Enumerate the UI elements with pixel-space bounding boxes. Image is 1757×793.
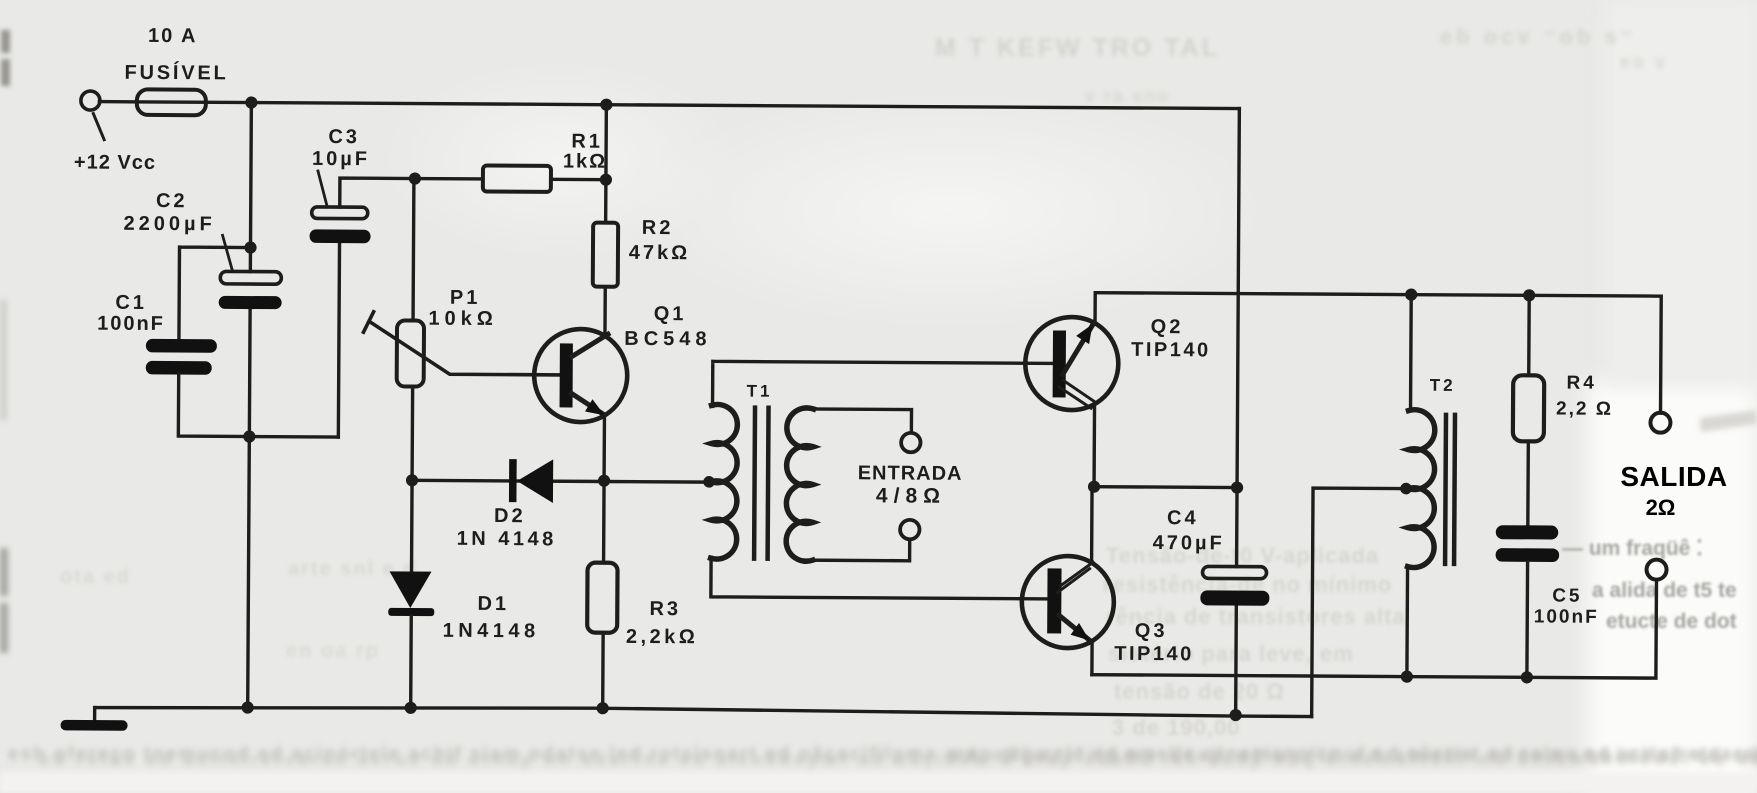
svg-text:C1: C1 [115,292,147,314]
transformer T2 bottom lead [1405,567,1409,677]
transistor Q2 circle [1025,317,1119,411]
wire: Q3 collector lead up [1090,487,1094,564]
fuse F1 body [137,89,206,115]
label SALIDA [1619,461,1729,493]
node: junction C4 line [1231,481,1243,493]
transistor Q3 circle [1022,556,1115,649]
resistor R2 (47k) body [593,223,618,287]
capacitor C2 (2200uF) top plate [220,271,281,284]
transistor Q1 emitter stroke with arrow [571,393,602,413]
wire: R3 bottom lead [601,633,605,709]
svg-text:T2: T2 [1430,376,1456,395]
wire: Q1 emitter lead down [602,416,606,481]
transistor Q1 base bar [560,343,573,407]
transformer T1 secondary winding [786,408,813,562]
leader line C2 label [222,235,232,270]
svg-text:10 A: 10 A [148,25,198,47]
svg-text:P1: P1 [450,287,481,309]
node: junction Q2/Q3 [1088,481,1100,493]
wire: vertical R2 branch from rail [604,105,608,223]
capacitor C1 bottom plate [146,361,212,375]
svg-text:R2: R2 [642,217,674,239]
svg-text:BC548: BC548 [624,328,711,351]
leader line C3 label [318,171,327,205]
capacitor C5 (100nF) top plate [1496,525,1559,539]
svg-text:C3: C3 [328,126,360,148]
svg-text:100nF: 100nF [97,313,165,335]
terminal: SALIDA upper [1650,413,1670,433]
svg-text:R1: R1 [571,130,603,152]
svg-text:FUSÍVEL: FUSÍVEL [124,61,228,85]
wire: R2 bottom to Q1 collector [603,287,607,337]
node: junction Q1 emitter / D2 [598,475,610,487]
node: junction C2 line bottom [243,430,255,442]
wire: Q2 collector lead down [1092,405,1096,487]
label 2 ohm (SALIDA) [1619,495,1702,521]
wire: R3 top lead [602,481,606,563]
wire: C1 bottom to bottom node line [178,374,338,437]
transistor Q3 emitter stroke with arrow (down) [1059,615,1090,640]
wire: lower output rail [1092,577,1657,678]
wire: C1 top connection [179,247,251,339]
svg-text:Q2: Q2 [1151,316,1184,338]
svg-text:2200µF: 2200µF [123,213,215,236]
terminal: ENTRADA lower [900,520,920,540]
svg-text:C5: C5 [1552,585,1582,606]
resistor R4 (2,2) body [1513,375,1544,441]
transformer T1 primary winding [711,404,738,559]
resistor R1 (1k) body [483,165,551,191]
svg-text:R3: R3 [649,598,681,620]
node: junction C5 / lower rail [1521,671,1533,683]
svg-text:1N 4148: 1N 4148 [457,528,557,551]
svg-text:47kΩ: 47kΩ [629,242,691,264]
svg-text:10kΩ: 10kΩ [428,308,498,330]
wire: C3 top lead up and right to node [340,178,414,207]
terminal: SALIDA lower [1646,560,1666,580]
capacitor C4 bottom plate [1200,590,1269,605]
terminal: ENTRADA upper [901,433,921,453]
svg-text:Q3: Q3 [1135,620,1168,642]
svg-text:TIP140: TIP140 [1131,339,1211,361]
svg-text:R4: R4 [1566,373,1596,394]
transistor Q2 base bar [1053,330,1066,397]
node: junction C1 top [244,241,256,253]
node: ground junction C2 branch [242,701,254,713]
svg-text:ENTRADA: ENTRADA [858,462,963,485]
transistor Q1 circle [534,329,628,423]
wire: R1 left lead [415,177,483,181]
svg-text:4/8Ω: 4/8Ω [876,484,946,507]
svg-text:1N4148: 1N4148 [443,620,540,643]
capacitor C4 (470uF) top plate [1202,566,1266,578]
transformer T1 : top wire to Q2 base [713,361,1054,408]
svg-text:2,2 Ω: 2,2 Ω [1556,399,1613,420]
wire: upper output rail [1095,293,1662,413]
ghost show-through text: far right column [1562,536,1703,561]
svg-text:D2: D2 [494,505,526,527]
transistor Q2 emitter stroke with arrow (up) [1063,322,1094,374]
ghost show-through text: mid right column [1106,543,1379,569]
wire: D2 line [412,480,604,481]
capacitor C5 bottom plate [1496,548,1560,562]
wire: vertical C2 branch [248,103,252,708]
wire: D1 top lead [410,481,414,572]
wire: top rail from terminal to x=1240 [99,102,1239,109]
node: junction R1/R2 [600,174,612,186]
node: junction rail/R2 [600,99,612,111]
svg-text:TIP140: TIP140 [1114,643,1194,665]
svg-text:C4: C4 [1167,507,1199,529]
node: junction R4 / +rail [1523,289,1535,301]
node: junction T2 bottom / lower rail [1401,670,1413,682]
wire: R4 bottom lead [1526,441,1530,525]
ground symbol [93,708,96,722]
left edge smudges [1,30,10,53]
wire: vertical from +rail through C4 [1236,109,1240,716]
transistor Q2 collector double stroke [1059,380,1095,408]
ghost bottom band [8,744,1757,766]
leader line to +12Vcc label [93,114,104,140]
potentiometer P1 top lead [411,179,415,321]
transistor Q3 collector double stroke [1057,562,1093,593]
capacitor C1 (100nF) top plate [146,339,217,353]
capacitor C2 bottom plate [219,296,282,309]
transformer T2 core [1445,415,1455,564]
wire: C5 bottom lead [1525,562,1529,677]
transformer T2 top lead [1409,295,1413,411]
potentiometer P1 wiper arrow [369,321,561,375]
transistor Q3 base bar [1047,568,1061,633]
diode D2 cathode bar [509,459,517,502]
wire: Q3 emitter lead down [1090,642,1094,675]
potentiometer P1 (10k) body [397,320,424,386]
node: ground junction R3 [597,702,609,714]
svg-text:10µF: 10µF [312,148,370,170]
capacitor C3 bottom plate [310,229,371,243]
node: junction C3/R1/P1 [409,172,421,184]
capacitor C3 (10uF) top plate [312,207,368,219]
node: T2 centre tap [1400,483,1412,495]
transformer T2 winding [1408,410,1435,568]
node: T1 primary centre tap [703,476,715,488]
svg-text:100nF: 100nF [1534,606,1599,627]
ground rail [95,705,1312,716]
diode D2 triangle [517,459,553,503]
node: junction rail/C2 branch [245,96,257,108]
resistor R3 (2,2k) body [587,563,617,633]
wire: R1 right lead [551,178,606,182]
wire: P1 bottom lead to D2 node [410,387,414,481]
node: ground junction C4 [1230,709,1242,721]
node: junction T2 top / +rail [1405,288,1417,300]
wire: centre tap to D2 line [604,480,706,484]
svg-text:C2: C2 [156,190,188,212]
wire: Q2 emitter lead up to +rail [1093,293,1097,323]
svg-text:Q1: Q1 [654,303,687,325]
svg-text:D1: D1 [477,593,509,615]
svg-text:470µF: 470µF [1153,532,1225,554]
wire: secondary top to terminal [805,409,911,433]
input terminal +12Vcc [81,91,100,110]
transformer T1 core [754,408,768,559]
transformer T1 bottom wire to Q3 base [711,557,1051,599]
svg-text:1kΩ: 1kΩ [563,150,607,172]
ghost show-through top titles [935,34,1220,63]
transistor Q1 collector stroke [572,334,608,357]
svg-text:+12 Vcc: +12 Vcc [74,151,156,174]
wire: R4 top lead [1527,295,1531,375]
wire: C3 bottom lead [338,243,339,437]
wire: secondary bottom to terminal [805,539,910,561]
wire: centre line between Q2/Q3 [1094,485,1237,489]
diode D1 triangle [389,571,431,608]
diode D1 cathode bar [388,608,434,616]
svg-text:T1: T1 [747,382,773,401]
wire: from ground rail up to T2 tap [1312,488,1407,717]
node: ground junction D1 [405,702,417,714]
paper background washes [1588,380,1757,793]
wire: D1 bottom lead [409,616,413,708]
svg-text:2,2kΩ: 2,2kΩ [626,626,699,648]
node: junction P1/D1/D2 [406,474,418,486]
